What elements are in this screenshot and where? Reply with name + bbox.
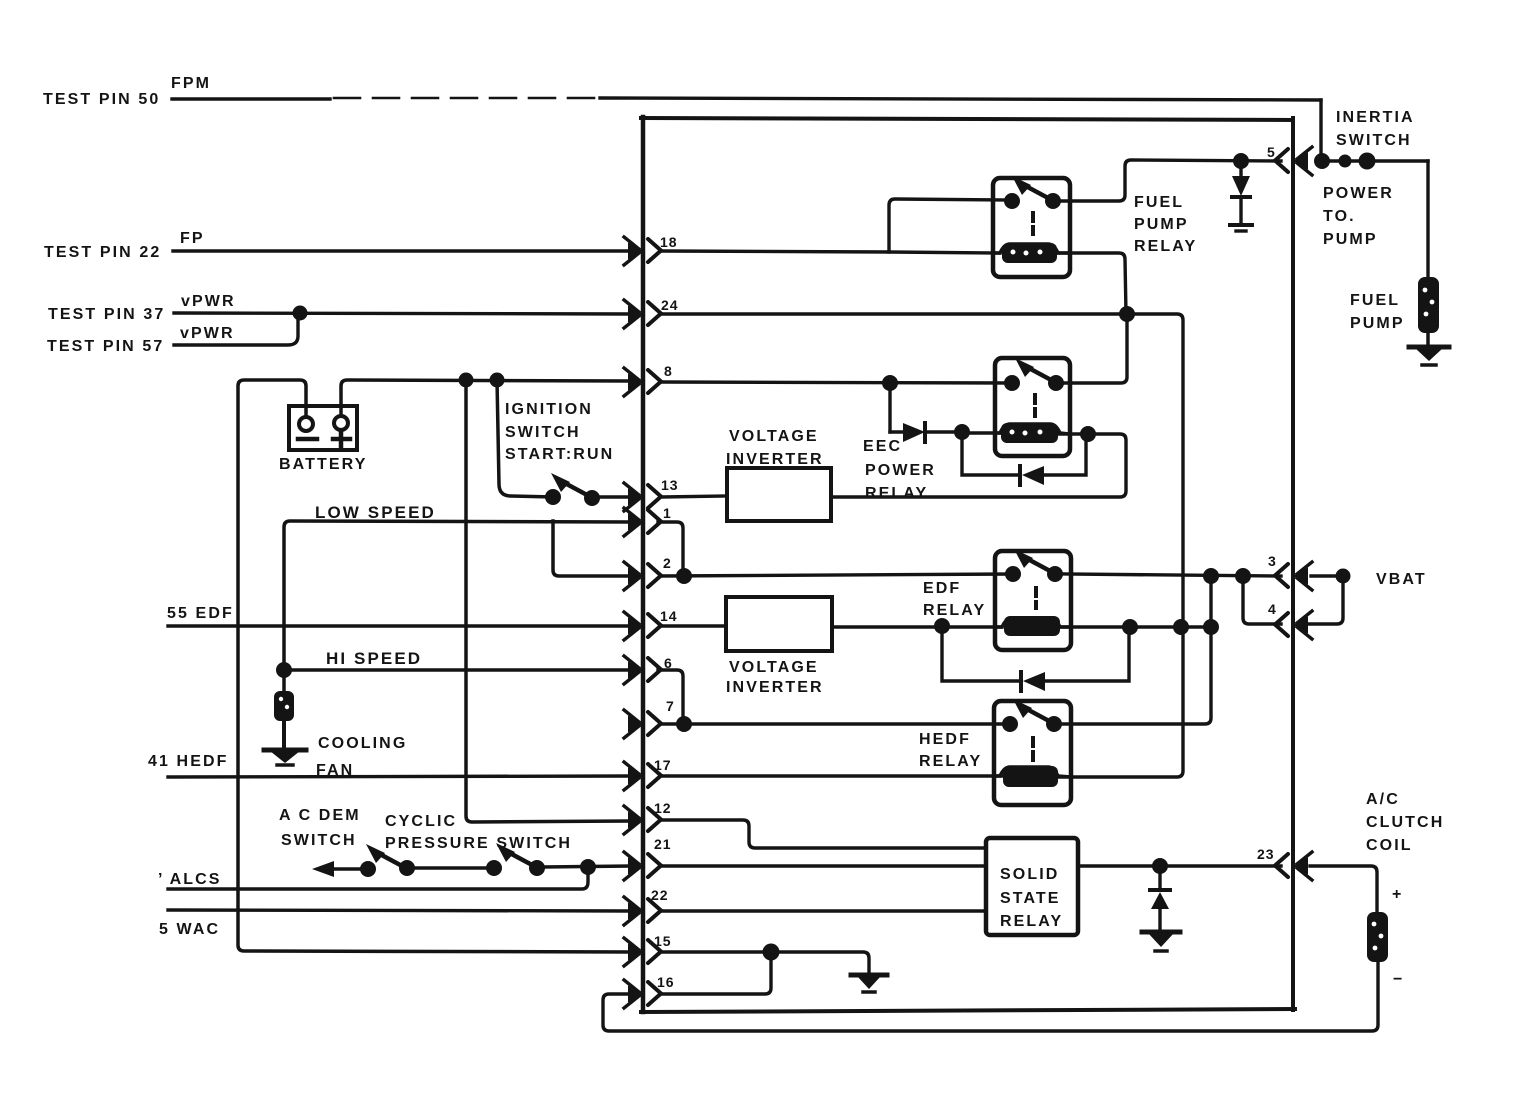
junction bbox=[1203, 619, 1219, 635]
junction bbox=[1235, 568, 1251, 584]
svg-text:FP: FP bbox=[180, 230, 205, 247]
svg-text:RELAY: RELAY bbox=[919, 753, 982, 770]
wire pin 1 jumper down to pin 2 bbox=[658, 522, 683, 576]
svg-text:13: 13 bbox=[661, 477, 679, 493]
svg-text:FUEL: FUEL bbox=[1134, 194, 1184, 211]
svg-text:5: 5 bbox=[1267, 144, 1276, 160]
wire FPM from test pin 50 to inertia switch node bbox=[172, 97, 330, 100]
wire battery negative enclosure down to pin 15 bbox=[238, 380, 630, 952]
ground at solid state relay diode bbox=[1142, 932, 1180, 951]
wire pin 24 VPWR rail bbox=[662, 314, 1183, 777]
EEC module top boundary wire bbox=[641, 118, 1293, 120]
voltage inverter U1 bbox=[727, 468, 831, 521]
svg-text:TEST PIN 22: TEST PIN 22 bbox=[44, 244, 161, 261]
EEC module right bus bbox=[1291, 118, 1295, 1010]
svg-text:RELAY: RELAY bbox=[1000, 913, 1063, 930]
svg-text:RELAY: RELAY bbox=[1134, 238, 1197, 255]
svg-text:HI SPEED: HI SPEED bbox=[326, 649, 422, 668]
svg-text:16: 16 bbox=[657, 974, 675, 990]
svg-text:TEST PIN 57: TEST PIN 57 bbox=[47, 338, 164, 355]
ground at pin 15 bbox=[851, 975, 887, 992]
wire pin 18 to fuel pump relay bbox=[662, 251, 889, 252]
diode D5 to ground on power-to-pump line bbox=[1232, 161, 1250, 223]
wire battery rail to ignition switch bbox=[497, 380, 552, 497]
svg-text:BATTERY: BATTERY bbox=[279, 456, 367, 473]
junction bbox=[490, 373, 505, 388]
svg-text:vPWR: vPWR bbox=[180, 325, 235, 342]
pin 6 bbox=[624, 656, 661, 684]
pin 4 on right bus bbox=[1275, 611, 1312, 639]
wire pin 15 to ground bbox=[662, 952, 869, 973]
wire pin 23 to A/C clutch coil bbox=[1310, 866, 1377, 912]
svg-text:CYCLIC: CYCLIC bbox=[385, 813, 457, 830]
EEC module bottom boundary wire bbox=[641, 1009, 1295, 1012]
wire HEDF input to EEC pin 17 bbox=[168, 776, 630, 777]
wire EDF relay switch output to pin 3 VBAT line bbox=[1063, 574, 1281, 576]
svg-text:−: − bbox=[1393, 971, 1404, 988]
junction bbox=[1152, 858, 1168, 874]
cooling fan motor M1 bbox=[274, 677, 294, 747]
svg-text:4: 4 bbox=[1268, 601, 1277, 617]
wire diode to coil bbox=[962, 431, 1000, 434]
wire pin 14 to inverter bbox=[662, 624, 726, 627]
node VBAT bbox=[1336, 569, 1351, 584]
svg-text:PUMP: PUMP bbox=[1134, 216, 1189, 233]
svg-text:COOLING: COOLING bbox=[318, 735, 407, 752]
wire WAC input to EEC pin 22 bbox=[168, 910, 630, 911]
A/C clutch coil L1 bbox=[1367, 912, 1388, 962]
solid state relay U3 bbox=[986, 838, 1078, 935]
junction bbox=[1203, 568, 1219, 584]
junction bbox=[763, 944, 780, 961]
svg-text:COIL: COIL bbox=[1366, 837, 1413, 854]
svg-text:CLUTCH: CLUTCH bbox=[1366, 814, 1444, 831]
svg-text:TEST PIN 50: TEST PIN 50 bbox=[43, 91, 160, 108]
pin 1 bbox=[624, 508, 661, 536]
HEDF relay K4 bbox=[994, 699, 1071, 805]
wire EDF relay coil to VPWR rail bbox=[1060, 625, 1214, 628]
junction bbox=[1173, 619, 1189, 635]
svg-text:POWER: POWER bbox=[865, 462, 936, 479]
svg-text:POWER: POWER bbox=[1323, 185, 1394, 202]
wire HEDF relay switch output up to EDF output line bbox=[1062, 576, 1211, 724]
pin 21 bbox=[624, 852, 661, 880]
diode D1 feeding EEC power relay coil bbox=[890, 423, 962, 442]
wire EDF input to EEC pin 14 bbox=[168, 624, 630, 627]
pin 14 bbox=[624, 612, 661, 640]
svg-text:VOLTAGE: VOLTAGE bbox=[729, 659, 819, 676]
wire battery positive rail to EEC pin 8 bbox=[341, 380, 630, 416]
junction bbox=[676, 568, 692, 584]
svg-text:12: 12 bbox=[654, 800, 672, 816]
wire VPWR down to EEC power relay switch bbox=[1056, 314, 1127, 383]
pin 5 on right bus bbox=[1275, 147, 1312, 175]
wire FP to EEC pin 18 bbox=[173, 249, 630, 252]
svg-text:vPWR: vPWR bbox=[181, 293, 236, 310]
pin 16 bbox=[624, 980, 661, 1008]
cyclic pressure switch S3 bbox=[486, 843, 630, 876]
wire pin 8 to EEC power relay switch bbox=[662, 382, 1012, 383]
EEC power relay K2 bbox=[995, 358, 1070, 456]
svg-text:PUMP: PUMP bbox=[1323, 231, 1378, 248]
svg-text:PRESSURE SWITCH: PRESSURE SWITCH bbox=[385, 835, 572, 852]
battery B1 bbox=[289, 406, 357, 450]
svg-text:INERTIA: INERTIA bbox=[1336, 109, 1415, 126]
EEC module left bus bbox=[641, 117, 646, 1012]
svg-text:3: 3 bbox=[1268, 553, 1277, 569]
wire pin 6 jumper down to pin 7 bbox=[658, 670, 683, 724]
svg-text:55 EDF: 55 EDF bbox=[167, 605, 234, 622]
pin 13 bbox=[624, 483, 661, 511]
svg-text:17: 17 bbox=[654, 757, 672, 773]
svg-text:FAN: FAN bbox=[316, 762, 354, 779]
pin 22 bbox=[624, 897, 661, 925]
junction bbox=[676, 716, 692, 732]
wire pin 2 to EDF relay switch bbox=[662, 574, 1013, 576]
wire pin 17 to HEDF relay coil bbox=[662, 774, 1003, 777]
svg-text:VBAT: VBAT bbox=[1376, 571, 1427, 588]
wire VPWR to EEC pin 24 bbox=[174, 313, 630, 314]
junction bbox=[1122, 619, 1138, 635]
svg-text:A C DEM: A C DEM bbox=[279, 807, 361, 824]
inertia switch S4 bbox=[1322, 153, 1428, 170]
svg-text:SWITCH: SWITCH bbox=[281, 832, 357, 849]
svg-text:14: 14 bbox=[660, 608, 678, 624]
junction bbox=[1233, 153, 1249, 169]
junction bbox=[293, 306, 308, 321]
svg-text:22: 22 bbox=[651, 887, 669, 903]
ground at fuel pump bbox=[1409, 347, 1449, 365]
pin 7 bbox=[624, 710, 661, 738]
svg-text:PUMP: PUMP bbox=[1350, 315, 1405, 332]
pin 18 bbox=[624, 237, 661, 265]
pin 8 bbox=[624, 368, 661, 396]
pin 2 bbox=[624, 562, 661, 590]
wire to relay coil bbox=[889, 252, 1000, 253]
wire junction down to coil diode bbox=[888, 383, 891, 432]
svg-text:EEC: EEC bbox=[863, 438, 902, 455]
junction bbox=[459, 373, 474, 388]
fuel pump M2 bbox=[1418, 277, 1439, 345]
wire VBAT branch down to pin 4 bbox=[1243, 576, 1281, 624]
wire pin 16 return from A/C clutch coil bbox=[603, 962, 1378, 1031]
svg-text:15: 15 bbox=[654, 933, 672, 949]
pin 3 on right bus bbox=[1275, 562, 1312, 590]
svg-text:21: 21 bbox=[654, 836, 672, 852]
pin 12 bbox=[624, 806, 661, 834]
wire EEC power relay coil to voltage inverter output bbox=[831, 434, 1126, 497]
svg-text:1: 1 bbox=[663, 505, 672, 521]
wire pin 12 to solid state relay bbox=[662, 820, 986, 848]
svg-text:18: 18 bbox=[660, 234, 678, 250]
svg-text:INVERTER: INVERTER bbox=[726, 451, 824, 468]
svg-text:RELAY: RELAY bbox=[865, 485, 928, 502]
svg-text:41 HEDF: 41 HEDF bbox=[148, 753, 229, 770]
wire hi speed line to pin 6 bbox=[284, 668, 630, 672]
A/C demand switch S2 bbox=[312, 844, 491, 877]
wire ALCS input rises to pressure switch output bbox=[168, 867, 588, 889]
junction bbox=[580, 859, 596, 875]
junction bbox=[276, 662, 292, 678]
wire fuel pump relay switch output to pin 5 line bbox=[1061, 160, 1281, 201]
pin 23 on right bus bbox=[1275, 852, 1312, 880]
svg-text:+: + bbox=[1392, 886, 1403, 903]
wire inverter output to EDF relay coil bbox=[832, 625, 1002, 628]
flyback diode D2 across EEC power relay coil bbox=[962, 432, 1086, 485]
wire VPWR test pin 57 joins pin 37 line bbox=[174, 313, 298, 345]
svg-text:24: 24 bbox=[661, 297, 679, 313]
wire branch up to relay switch contact bbox=[889, 199, 1012, 251]
wire battery rail down to pin 12 bbox=[466, 380, 630, 822]
wire down to fuel pump bbox=[1426, 161, 1429, 278]
svg-text:SWITCH: SWITCH bbox=[505, 424, 581, 441]
svg-text:HEDF: HEDF bbox=[919, 731, 971, 748]
wire fuel pump relay coil to VPWR junction bbox=[1058, 253, 1126, 314]
svg-text:START:RUN: START:RUN bbox=[505, 446, 614, 463]
diode D4 to ground at solid state relay output bbox=[1150, 866, 1170, 930]
svg-text:FUEL: FUEL bbox=[1350, 292, 1400, 309]
wire pin 21 to solid state relay bbox=[662, 864, 986, 867]
svg-text:IGNITION: IGNITION bbox=[505, 401, 593, 418]
junction bbox=[934, 618, 950, 634]
svg-text:TEST PIN 37: TEST PIN 37 bbox=[48, 306, 165, 323]
junction bbox=[1080, 426, 1096, 442]
svg-text:A/C: A/C bbox=[1366, 791, 1400, 808]
fuel pump relay K1 bbox=[993, 176, 1070, 277]
wire pin 22 to solid state relay bbox=[662, 909, 986, 912]
pin 24 bbox=[624, 300, 661, 328]
wire low speed branch down to pin 2 bbox=[553, 521, 630, 576]
wire low speed line to pin 1 bbox=[284, 521, 630, 664]
flyback diode D3 across EDF relay coil bbox=[942, 626, 1129, 691]
svg-text:SOLID: SOLID bbox=[1000, 866, 1059, 883]
svg-text:SWITCH: SWITCH bbox=[1336, 132, 1412, 149]
svg-text:VOLTAGE: VOLTAGE bbox=[729, 428, 819, 445]
ground at diode D5 bbox=[1230, 225, 1252, 231]
svg-text:7: 7 bbox=[666, 698, 675, 714]
svg-text:TO.: TO. bbox=[1323, 208, 1356, 225]
svg-text:5 WAC: 5 WAC bbox=[159, 921, 220, 938]
svg-text:’ ALCS: ’ ALCS bbox=[158, 871, 222, 888]
wire VBAT loop to pin 4 bbox=[1308, 576, 1343, 624]
ground for cooling fan bbox=[264, 750, 306, 765]
svg-text:STATE: STATE bbox=[1000, 890, 1061, 907]
junction bbox=[882, 375, 898, 391]
svg-text:INVERTER: INVERTER bbox=[726, 679, 824, 696]
svg-text:EDF: EDF bbox=[923, 580, 961, 597]
junction bbox=[1119, 306, 1135, 322]
svg-text:23: 23 bbox=[1257, 846, 1275, 862]
svg-text:RELAY: RELAY bbox=[923, 602, 986, 619]
junction FPM joins power-to-pump line bbox=[1314, 153, 1330, 169]
svg-text:LOW SPEED: LOW SPEED bbox=[315, 503, 436, 522]
svg-text:2: 2 bbox=[663, 555, 672, 571]
wire VBAT to pin 3 bbox=[1311, 574, 1343, 577]
junction bbox=[954, 424, 970, 440]
wire pin 13 to inverter bbox=[662, 496, 727, 497]
wire solid state relay output to pin 23 bbox=[1078, 864, 1281, 867]
voltage inverter U2 bbox=[726, 597, 832, 651]
EDF relay K3 bbox=[995, 549, 1071, 650]
wire pin 7 to HEDF relay switch bbox=[662, 722, 1010, 725]
pin 17 bbox=[624, 762, 661, 790]
ignition switch S1 bbox=[545, 473, 630, 506]
wire pin 16 jumper up to pin 15 bbox=[662, 952, 771, 994]
svg-text:FPM: FPM bbox=[171, 75, 211, 92]
pin 15 bbox=[624, 938, 661, 966]
svg-text:8: 8 bbox=[664, 363, 673, 379]
